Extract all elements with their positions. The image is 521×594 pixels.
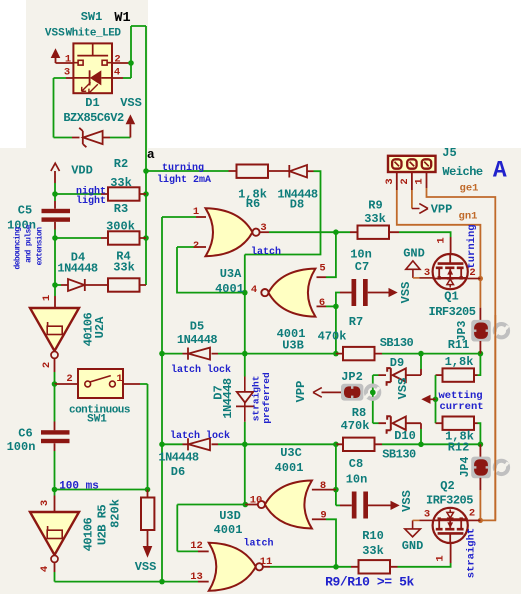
junction latch-lock row2 bbox=[159, 442, 165, 448]
power VSS arrow at C7 bbox=[368, 292, 389, 294]
wire J5 pin2 to VPP bbox=[411, 172, 413, 190]
svg-text:4: 4 bbox=[251, 284, 257, 296]
wire JP4 to Q2 pin2 bbox=[479, 490, 481, 520]
resistor R6 bbox=[237, 165, 269, 178]
svg-text:1: 1 bbox=[193, 206, 199, 218]
junction JP3 bottom bbox=[478, 351, 484, 357]
wire U3D pin12 loop bbox=[177, 505, 198, 552]
svg-text:1: 1 bbox=[435, 555, 447, 561]
power VSS arrow at zener bbox=[126, 114, 136, 124]
svg-text:Q2: Q2 bbox=[440, 479, 454, 493]
svg-text:current: current bbox=[439, 401, 483, 413]
svg-text:JP3: JP3 bbox=[456, 321, 469, 342]
junction U3B pin6 bbox=[333, 304, 339, 310]
svg-text:D5: D5 bbox=[190, 320, 204, 334]
resistor R8 bbox=[343, 438, 375, 451]
svg-text:IRF3205: IRF3205 bbox=[426, 494, 473, 508]
svg-text:3: 3 bbox=[424, 267, 430, 279]
wire D4 row to U2A pin1 bbox=[54, 285, 56, 296]
wire R11 left lead bbox=[436, 374, 443, 376]
wire R3 row bbox=[55, 237, 101, 239]
wire U3A output row with R9 bbox=[260, 231, 269, 233]
junction latch-lock row1 bbox=[159, 351, 165, 357]
svg-text:Weiche: Weiche bbox=[442, 165, 483, 179]
wire LED pin3 left route bbox=[66, 77, 74, 79]
svg-text:turning: turning bbox=[466, 224, 478, 268]
svg-text:VPP: VPP bbox=[294, 381, 308, 403]
diode D6 bbox=[187, 438, 189, 450]
svg-text:VSS: VSS bbox=[399, 282, 413, 304]
capacitor C6 bbox=[41, 430, 70, 434]
svg-text:3: 3 bbox=[64, 67, 70, 79]
wire U3C out row bbox=[177, 504, 245, 506]
wire ge1 from J5 pin1 bbox=[427, 188, 496, 520]
svg-text:R9/R10 >= 5k: R9/R10 >= 5k bbox=[325, 575, 414, 590]
svg-text:1,8k: 1,8k bbox=[445, 430, 474, 444]
wire U3A pin1 net vertical x162 bbox=[161, 217, 163, 582]
wire gn1 from J5 pin3 bbox=[397, 190, 481, 308]
svg-text:U3C: U3C bbox=[280, 446, 302, 460]
svg-text:light 2mA: light 2mA bbox=[157, 174, 211, 186]
wire zener leads bbox=[72, 137, 110, 139]
svg-text:BZX85C6V2: BZX85C6V2 bbox=[63, 111, 124, 125]
svg-text:C6: C6 bbox=[18, 427, 32, 441]
wire C8 lead bbox=[336, 504, 340, 506]
wire SW1a pin1 VSS stub bbox=[56, 58, 75, 63]
svg-text:JP4: JP4 bbox=[459, 457, 472, 478]
wire R11 right lead bbox=[474, 374, 478, 376]
diode D7 bbox=[237, 392, 253, 403]
wire U3B output node vertical bbox=[244, 255, 246, 505]
svg-text:10n: 10n bbox=[346, 473, 368, 487]
switch/LED W1 body bbox=[73, 43, 112, 93]
svg-text:R2: R2 bbox=[114, 157, 128, 171]
wire D10 branch bbox=[373, 422, 379, 424]
svg-text:820k: 820k bbox=[109, 499, 123, 528]
svg-text:2: 2 bbox=[193, 240, 199, 252]
wire J5 pin3 lead bbox=[396, 172, 398, 190]
svg-text:W1: W1 bbox=[114, 11, 130, 26]
svg-text:turning: turning bbox=[162, 162, 204, 174]
power GND symbol at Q2 gate bbox=[405, 529, 421, 537]
svg-text:D6: D6 bbox=[171, 465, 185, 479]
svg-text:ge1: ge1 bbox=[460, 183, 479, 195]
svg-text:SW1: SW1 bbox=[87, 414, 107, 426]
wire pin6 to R7 row bbox=[335, 306, 337, 353]
svg-text:2: 2 bbox=[399, 178, 411, 184]
switch SW1 continuous body bbox=[78, 369, 123, 398]
junction Q1 pin2 gn1 bbox=[478, 276, 483, 281]
junction U3B out bbox=[242, 290, 248, 296]
wire R2 row bbox=[55, 193, 101, 195]
power VPP arrow at JP2 bbox=[322, 391, 342, 393]
svg-text:4: 4 bbox=[39, 566, 51, 572]
wire latch lock row2 bbox=[162, 443, 336, 445]
wire SW1 pin1 to right column bbox=[123, 383, 140, 385]
svg-text:4001: 4001 bbox=[275, 461, 304, 475]
junction latch node row2 bbox=[242, 442, 248, 448]
svg-text:R8: R8 bbox=[352, 406, 366, 420]
svg-text:4: 4 bbox=[114, 67, 120, 79]
svg-text:extension: extension bbox=[36, 227, 45, 266]
junction latch node row1 bbox=[242, 351, 248, 357]
junction wetting VSS bbox=[433, 397, 439, 403]
wire SW1 node to C6 bbox=[54, 384, 56, 422]
svg-text:33k: 33k bbox=[362, 544, 384, 558]
junction JP2 pad bbox=[370, 390, 376, 396]
svg-text:Q1: Q1 bbox=[444, 290, 458, 304]
svg-text:light: light bbox=[76, 195, 106, 207]
svg-text:U2A: U2A bbox=[93, 316, 107, 338]
svg-text:1N4448: 1N4448 bbox=[177, 333, 218, 347]
wire left column VDD to C5 bbox=[54, 183, 56, 201]
wire R3 to D4 row bbox=[54, 238, 56, 285]
nor gate U3D bbox=[209, 543, 256, 591]
zener diode D1 BZX85C6V2 bbox=[79, 128, 86, 147]
inverter U2B bbox=[30, 512, 79, 555]
svg-text:2: 2 bbox=[114, 54, 120, 66]
svg-text:latch lock: latch lock bbox=[171, 364, 231, 376]
connector J5 bbox=[388, 156, 436, 172]
svg-text:VSS: VSS bbox=[120, 96, 142, 110]
svg-text:3: 3 bbox=[39, 500, 51, 506]
wire U3D output row R10 bbox=[263, 566, 270, 568]
wire R8 row to JP4 bbox=[421, 443, 480, 445]
svg-text:4001: 4001 bbox=[215, 282, 244, 296]
wire ge1 overlay crossing JP rings bbox=[494, 315, 496, 520]
diode D8 bbox=[288, 165, 290, 178]
svg-text:U3B: U3B bbox=[282, 339, 304, 353]
wire U2B pin3 bbox=[54, 490, 56, 496]
wire U3B pin6 bbox=[317, 305, 327, 307]
svg-text:IRF3205: IRF3205 bbox=[429, 305, 476, 319]
jumper JP2 bbox=[341, 384, 363, 401]
resistor R4 bbox=[108, 278, 140, 291]
junction U3C out bbox=[243, 502, 249, 508]
svg-text:11: 11 bbox=[260, 556, 273, 568]
svg-text:D8: D8 bbox=[290, 198, 304, 212]
svg-text:1: 1 bbox=[41, 295, 53, 301]
capacitor C8 bbox=[352, 492, 357, 519]
junction 100ms left bbox=[52, 487, 58, 493]
diode D4 bbox=[68, 279, 85, 291]
svg-text:12: 12 bbox=[190, 540, 203, 552]
transistor Q2 IRF3205 bbox=[433, 519, 468, 521]
diode D9 SB130 bbox=[387, 368, 391, 386]
resistor R3 bbox=[108, 231, 140, 244]
wire R12 right lead bbox=[474, 422, 478, 424]
svg-text:1: 1 bbox=[116, 373, 122, 385]
wire net W1 vertical from W1 label down left column bbox=[131, 26, 146, 285]
junction JP4 top bbox=[478, 442, 484, 448]
svg-text:D9: D9 bbox=[390, 356, 404, 370]
svg-text:R9: R9 bbox=[368, 199, 382, 213]
junction Q2 pin2 bbox=[478, 518, 483, 523]
junction R2 row bbox=[143, 191, 149, 197]
svg-text:debouncing: debouncing bbox=[14, 227, 23, 270]
wire bottom row U2B out to U3D pin13 bbox=[55, 572, 199, 582]
LED D1 emission arrows bbox=[82, 82, 91, 91]
power VSS arrow below R5 bbox=[143, 546, 153, 558]
junction bottom row bbox=[159, 579, 165, 585]
svg-text:1: 1 bbox=[65, 54, 71, 66]
junction R3 left bbox=[52, 235, 58, 241]
resistor R12 bbox=[443, 417, 475, 430]
svg-text:latch: latch bbox=[251, 246, 281, 258]
junction D4 row bbox=[52, 282, 58, 288]
svg-text:C8: C8 bbox=[349, 457, 363, 471]
power VSS arrow wetting current bbox=[431, 398, 436, 400]
power GND symbol at Q1 gate bbox=[406, 261, 420, 269]
resistor R2 bbox=[108, 187, 140, 200]
switch W1 pushbutton bbox=[77, 43, 108, 55]
svg-text:3: 3 bbox=[384, 178, 396, 184]
svg-text:VSS: VSS bbox=[400, 490, 414, 512]
svg-text:GND: GND bbox=[402, 539, 424, 553]
wire U3A pin1 row bbox=[162, 216, 196, 218]
junction U3D out R10 bbox=[333, 564, 339, 570]
resistor R10 bbox=[359, 560, 391, 573]
junction R3 row bbox=[143, 235, 149, 241]
svg-text:13: 13 bbox=[190, 571, 203, 583]
wire R12 left lead bbox=[435, 399, 437, 423]
wire R8 leads bbox=[336, 443, 382, 445]
wire U3B pin5 bbox=[326, 232, 336, 277]
svg-text:100 ms: 100 ms bbox=[59, 481, 99, 493]
junction W1 pin2 bbox=[128, 60, 134, 66]
svg-text:10: 10 bbox=[250, 495, 263, 507]
svg-text:1,8k: 1,8k bbox=[445, 355, 474, 369]
junction 100ms right bbox=[145, 487, 151, 493]
transistor Q1 IRF3205 bbox=[433, 278, 468, 280]
svg-text:C5: C5 bbox=[18, 204, 32, 218]
svg-text:R3: R3 bbox=[114, 202, 128, 216]
svg-text:JP2: JP2 bbox=[341, 370, 363, 384]
svg-text:3: 3 bbox=[260, 222, 266, 234]
svg-text:SW1: SW1 bbox=[81, 10, 103, 24]
svg-text:VDD: VDD bbox=[71, 164, 93, 178]
wire U3A pin2 loop bbox=[177, 247, 245, 293]
wire zener to VSS arrow bbox=[129, 124, 131, 137]
svg-text:300k: 300k bbox=[106, 220, 135, 234]
nor gate U3C bbox=[265, 481, 312, 529]
svg-text:2: 2 bbox=[66, 373, 72, 385]
resistor R9 bbox=[358, 226, 390, 239]
svg-text:SB130: SB130 bbox=[380, 336, 414, 350]
svg-text:470k: 470k bbox=[318, 330, 347, 344]
power VSS arrow at LED pin1 bbox=[51, 48, 61, 58]
svg-text:1N4448: 1N4448 bbox=[221, 378, 235, 419]
diode D5 bbox=[187, 348, 189, 360]
wire latch lock row1 bbox=[162, 353, 336, 355]
svg-text:straight: straight bbox=[466, 528, 478, 578]
svg-text:preferred: preferred bbox=[261, 372, 272, 424]
svg-text:1: 1 bbox=[436, 237, 448, 243]
power VPP arrow at J5 pin2 bbox=[412, 204, 428, 214]
wire R6 leads bbox=[229, 170, 290, 172]
junction U3C pin8 bbox=[333, 487, 339, 493]
capacitor C7 bbox=[352, 279, 357, 306]
svg-text:8: 8 bbox=[320, 480, 326, 492]
svg-text:latch lock: latch lock bbox=[170, 430, 230, 442]
wire R5 top lead bbox=[147, 490, 149, 498]
junction R7 left bbox=[333, 351, 339, 357]
svg-text:6: 6 bbox=[319, 297, 325, 309]
wire JP2 pad junction bbox=[370, 390, 376, 396]
svg-text:GND: GND bbox=[403, 247, 425, 261]
junction U3A out to U3B pin5 bbox=[333, 229, 339, 235]
resistor R7 bbox=[343, 347, 375, 360]
svg-text:U3D: U3D bbox=[219, 509, 241, 523]
svg-text:R10: R10 bbox=[362, 529, 384, 543]
svg-text:100n: 100n bbox=[7, 440, 36, 454]
wire U3C pin8 stub bbox=[312, 489, 336, 491]
wire C5 to R3 row bbox=[54, 230, 56, 239]
svg-text:5: 5 bbox=[319, 263, 325, 275]
svg-text:latch: latch bbox=[243, 538, 273, 550]
wire turning light row bbox=[146, 170, 229, 172]
svg-text:1N4448: 1N4448 bbox=[158, 451, 199, 465]
inverter U2A bbox=[30, 308, 79, 351]
svg-text:470k: 470k bbox=[341, 419, 370, 433]
svg-text:VSS: VSS bbox=[396, 378, 410, 400]
svg-text:2: 2 bbox=[469, 267, 475, 279]
wire U3C pin9 bbox=[312, 518, 326, 520]
resistor R5 bbox=[141, 498, 154, 531]
svg-text:U3A: U3A bbox=[220, 267, 242, 281]
LED D1 inside W1 bbox=[89, 70, 91, 85]
svg-text:A: A bbox=[493, 158, 507, 184]
svg-text:R7: R7 bbox=[349, 315, 363, 329]
svg-text:4001: 4001 bbox=[214, 523, 243, 537]
svg-text:SB130: SB130 bbox=[382, 448, 416, 462]
svg-text:J5: J5 bbox=[442, 146, 456, 160]
junction R8 right D10 bbox=[418, 442, 424, 448]
nor gate U3A bbox=[206, 208, 253, 256]
wire W1 pin2 stub bbox=[112, 62, 131, 64]
junction R7 right D9 bbox=[418, 351, 424, 357]
capacitor C5 bbox=[42, 209, 71, 213]
jumper JP3 bbox=[479, 308, 481, 321]
svg-text:33k: 33k bbox=[113, 261, 135, 275]
wire R7 row to JP3 bbox=[421, 353, 480, 355]
svg-text:2: 2 bbox=[469, 508, 475, 520]
wire R7 leads bbox=[336, 353, 382, 355]
svg-text:3: 3 bbox=[424, 509, 430, 521]
svg-text:1N4448: 1N4448 bbox=[57, 262, 98, 276]
wire D8 anode to latch node bbox=[307, 170, 314, 172]
wire U2A out to SW1 node bbox=[54, 358, 56, 372]
wire R5 bottom to VSS arrow bbox=[147, 530, 149, 546]
svg-text:a: a bbox=[147, 147, 155, 162]
wire D9 branch bbox=[420, 354, 422, 369]
svg-text:VSS: VSS bbox=[45, 28, 65, 40]
junction R2 left bbox=[52, 191, 58, 197]
jumper JP4 bbox=[479, 444, 481, 457]
svg-text:D1: D1 bbox=[85, 96, 99, 110]
svg-text:2: 2 bbox=[41, 362, 53, 368]
junction turning-light row bbox=[143, 168, 149, 174]
junction SW1 pin2 bbox=[52, 381, 58, 387]
svg-text:C7: C7 bbox=[355, 260, 369, 274]
svg-text:VSS: VSS bbox=[135, 560, 157, 574]
wire 100ms row bbox=[55, 489, 148, 491]
svg-text:9: 9 bbox=[320, 510, 326, 522]
svg-text:R6: R6 bbox=[246, 197, 260, 211]
svg-text:White_LED: White_LED bbox=[66, 28, 122, 40]
diode D10 SB130 bbox=[387, 416, 391, 434]
wire SW1 pin2 stub bbox=[55, 383, 79, 385]
svg-text:33k: 33k bbox=[110, 176, 132, 190]
nor gate U3B bbox=[268, 269, 315, 317]
svg-text:D10: D10 bbox=[394, 429, 416, 443]
resistor R11 bbox=[443, 368, 475, 381]
svg-text:and pulse: and pulse bbox=[25, 224, 34, 263]
svg-text:1: 1 bbox=[414, 178, 426, 184]
svg-text:gn1: gn1 bbox=[459, 211, 478, 223]
junction R8 left bbox=[333, 442, 339, 448]
svg-text:40106: 40106 bbox=[82, 517, 96, 551]
svg-text:33k: 33k bbox=[364, 212, 386, 226]
power VSS arrow at C8 bbox=[368, 504, 391, 506]
wire D4/R4 row bbox=[55, 284, 61, 286]
power VDD arrow bbox=[51, 163, 60, 171]
svg-text:VPP: VPP bbox=[431, 203, 453, 217]
wire pin8/C8 vertical bbox=[335, 444, 337, 505]
wire C7 branch bbox=[336, 293, 340, 307]
svg-text:U2B R5: U2B R5 bbox=[96, 505, 110, 546]
svg-text:straight: straight bbox=[250, 376, 261, 422]
